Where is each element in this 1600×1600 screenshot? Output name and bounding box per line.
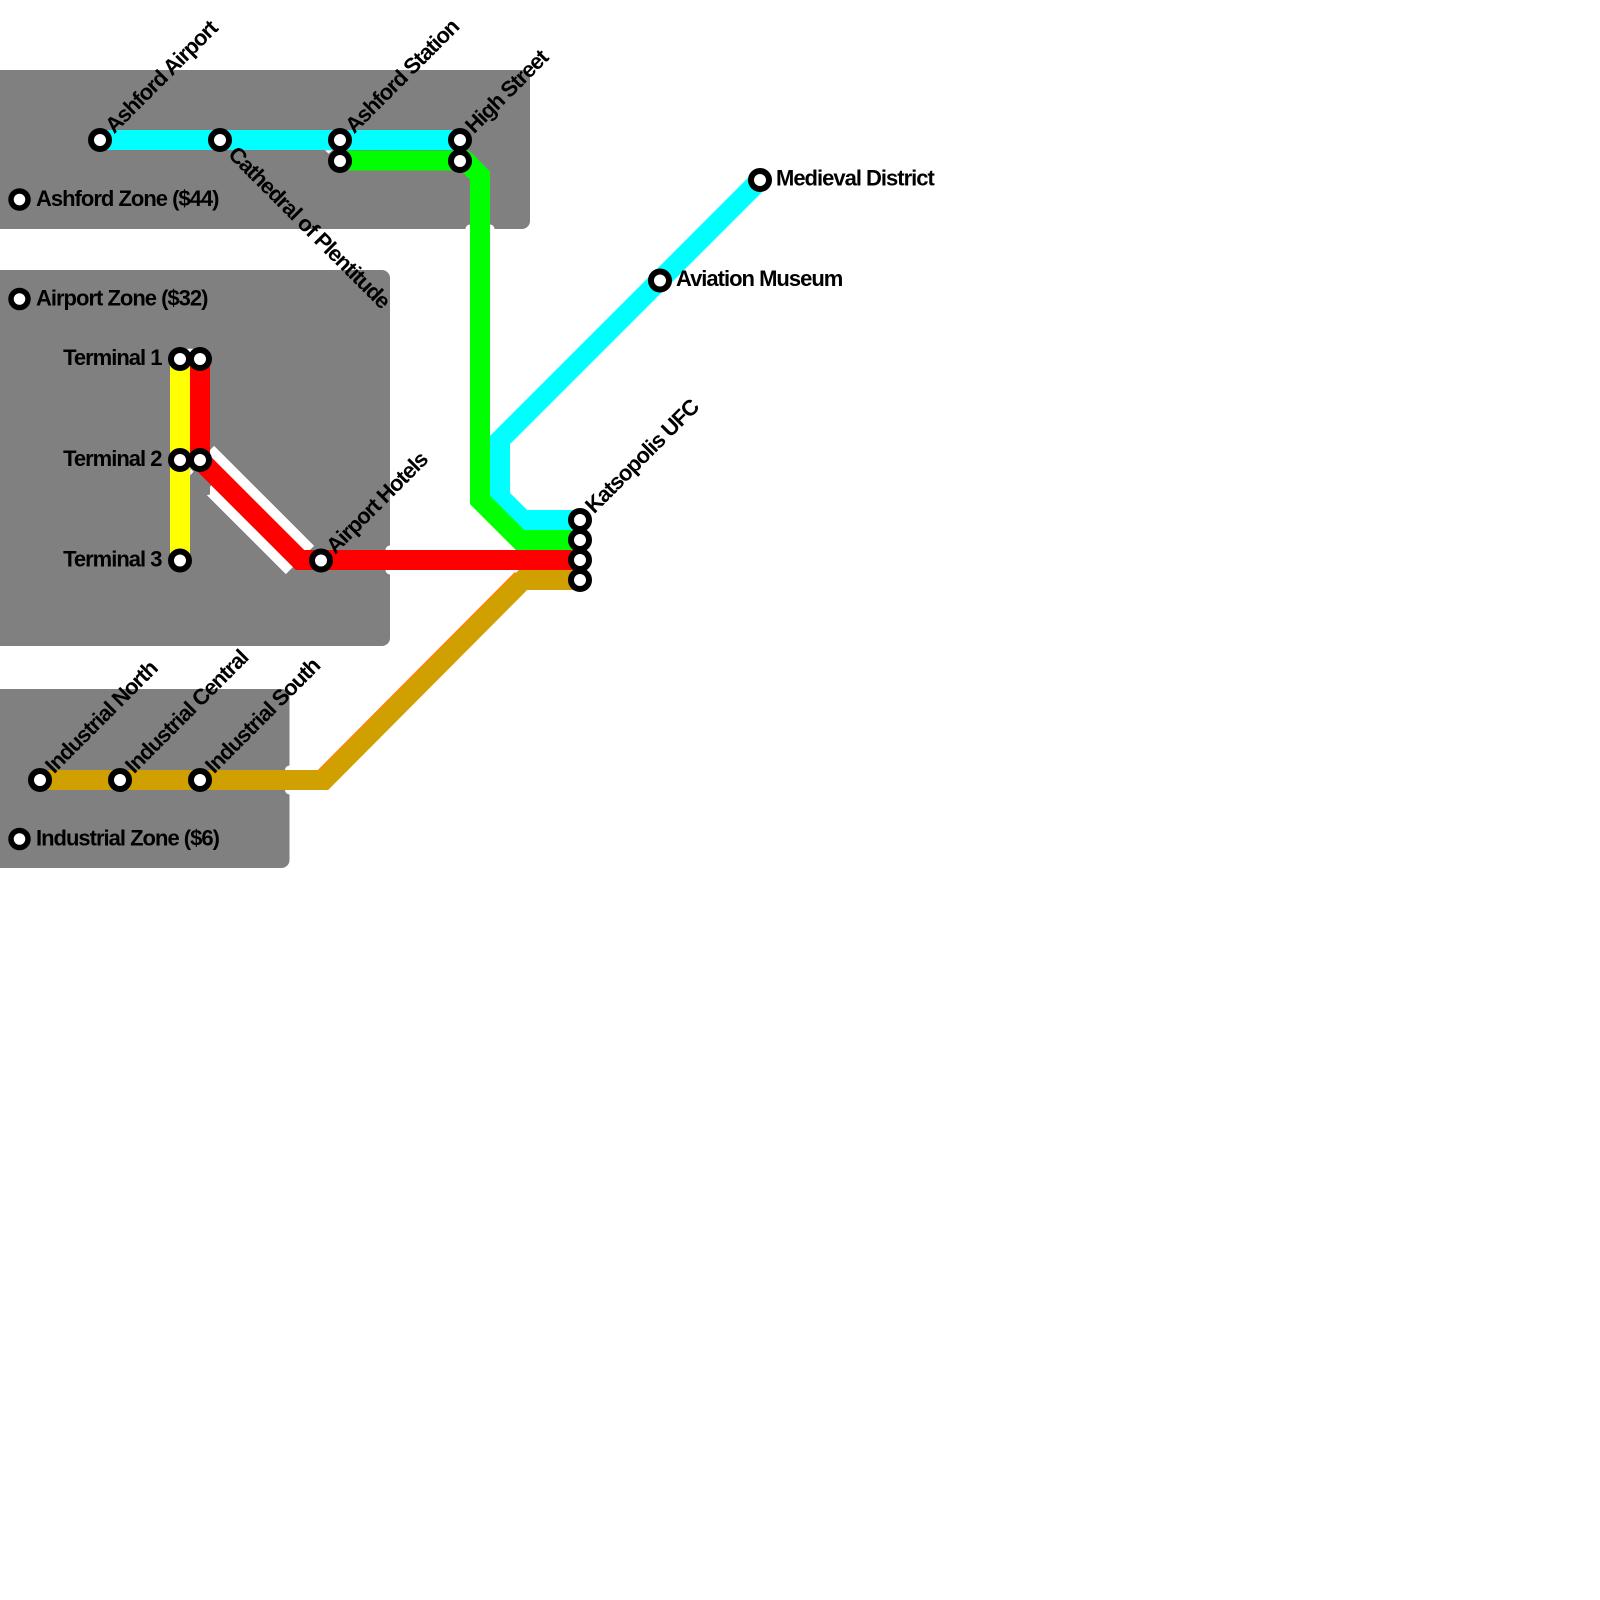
corner nicks where lines cross zone edges [285, 225, 495, 795]
station Katsopolis UFC green [571, 531, 589, 549]
station Ashford Station green [331, 152, 349, 170]
svg-text:Terminal 1: Terminal 1 [63, 345, 162, 370]
line gold Industrial North - Katsopolis UFC [40, 580, 580, 780]
zone bullet Ashford [11, 191, 28, 208]
station Terminal 1 red [191, 350, 209, 368]
line cyan Medieval District - Katsopolis UFC [500, 180, 760, 520]
svg-text:Industrial Zone ($6): Industrial Zone ($6) [36, 825, 220, 850]
station Industrial Central [111, 771, 129, 789]
station Aviation Museum [651, 272, 669, 290]
svg-text:Ashford Zone ($44): Ashford Zone ($44) [36, 186, 219, 211]
white mini wedge below Terminal 2 circle [190, 468, 193, 475]
line red Terminal 1 - Katsopolis UFC [200, 359, 580, 560]
station Katsopolis UFC cyan [571, 511, 589, 529]
white casing red diagonal Terminal 2 to bend [200, 460, 300, 560]
svg-text:Terminal 2: Terminal 2 [63, 446, 162, 471]
station Katsopolis UFC red [571, 551, 589, 569]
line green Ashford Station - Katsopolis UFC [340, 161, 580, 541]
zone Industrial Zone ($6) gray area [0, 689, 290, 868]
station Terminal 1 yellow [171, 350, 189, 368]
station Terminal 2 red [191, 451, 209, 469]
line yellow Terminal 1 - Terminal 3 [170, 359, 190, 561]
gray cutout of casing lower-left near Terminal 2 [183, 466, 213, 497]
station Terminal 3 [171, 552, 189, 570]
line cyan Ashford Airport - High Street [100, 130, 460, 150]
zone bullet Industrial [11, 831, 28, 848]
orange under-stroke on gold diagonal [323, 579, 522, 779]
station Ashford Airport [91, 131, 109, 149]
white notch at Ashford Station [325, 150, 333, 153]
zone Ashford Zone ($44) gray area [0, 70, 530, 229]
station Medieval District [751, 171, 769, 189]
station High Street green [451, 152, 469, 170]
station Ashford Station cyan [331, 131, 349, 149]
station Terminal 2 yellow [171, 451, 189, 469]
station Industrial North [31, 771, 49, 789]
svg-text:Airport Zone ($32): Airport Zone ($32) [36, 285, 208, 310]
zone Airport Zone ($32) gray area [0, 270, 390, 646]
station Industrial South [191, 771, 209, 789]
station Cathedral of Plentitude [211, 131, 229, 149]
svg-text:Aviation Museum: Aviation Museum [676, 266, 843, 291]
station Katsopolis UFC gold [571, 571, 589, 589]
white notch at Terminal 1 [187, 349, 193, 353]
svg-text:Medieval District: Medieval District [776, 166, 936, 191]
station High Street cyan [451, 131, 469, 149]
svg-text:Terminal 3: Terminal 3 [63, 547, 162, 572]
zone bullet Airport [11, 291, 28, 308]
station Airport Hotels [312, 552, 330, 570]
